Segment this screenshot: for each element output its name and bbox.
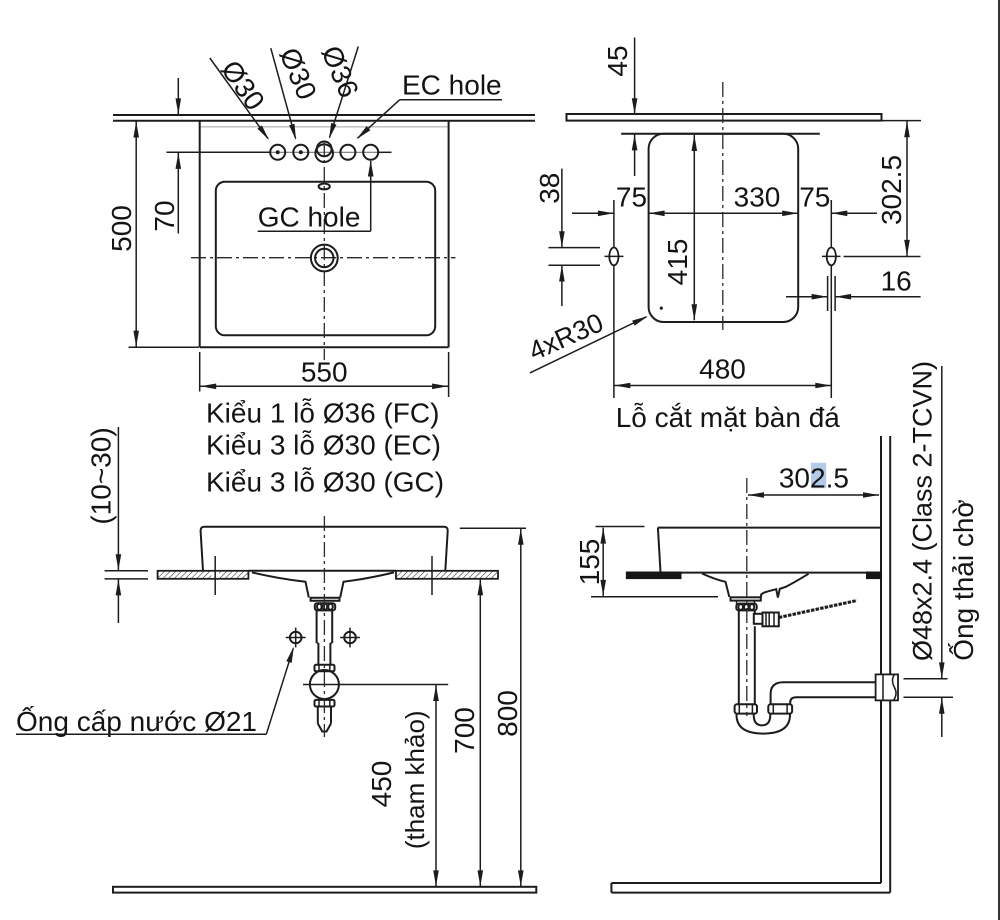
svg-text:Kiểu 3 lỗ Ø30 (GC): Kiểu 3 lỗ Ø30 (GC)	[206, 467, 444, 498]
svg-text:Ø48x2.4 (Class 2-TCVN): Ø48x2.4 (Class 2-TCVN)	[908, 361, 938, 661]
svg-text:(10~30): (10~30)	[86, 427, 117, 524]
svg-text:45: 45	[602, 45, 633, 76]
svg-text:EC hole: EC hole	[402, 70, 502, 101]
svg-text:75: 75	[616, 182, 647, 213]
svg-text:GC hole: GC hole	[258, 202, 361, 233]
svg-text:330: 330	[734, 182, 781, 213]
svg-text:Kiểu 3 lỗ Ø30 (EC): Kiểu 3 lỗ Ø30 (EC)	[206, 430, 441, 461]
svg-text:16: 16	[881, 266, 912, 297]
svg-text:302.5: 302.5	[876, 155, 907, 225]
svg-text:800: 800	[492, 690, 523, 737]
svg-text:75: 75	[799, 182, 830, 213]
svg-text:450: 450	[366, 761, 397, 808]
svg-text:Ống thải chờ: Ống thải chờ	[947, 499, 979, 661]
svg-text:550: 550	[301, 357, 348, 388]
svg-text:Ống cấp nước Ø21: Ống cấp nước Ø21	[16, 705, 257, 737]
svg-text:70: 70	[149, 200, 180, 231]
svg-text:415: 415	[662, 239, 693, 286]
svg-text:38: 38	[534, 173, 565, 204]
svg-text:302.5: 302.5	[779, 463, 849, 494]
svg-text:Lỗ cắt mặt bàn đá: Lỗ cắt mặt bàn đá	[616, 402, 841, 433]
svg-text:Kiểu 1 lỗ Ø36 (FC): Kiểu 1 lỗ Ø36 (FC)	[206, 398, 439, 429]
svg-text:700: 700	[449, 707, 480, 754]
svg-text:500: 500	[106, 205, 137, 252]
svg-text:480: 480	[699, 354, 746, 385]
svg-text:(tham khảo): (tham khảo)	[400, 710, 430, 849]
svg-text:155: 155	[574, 539, 605, 586]
